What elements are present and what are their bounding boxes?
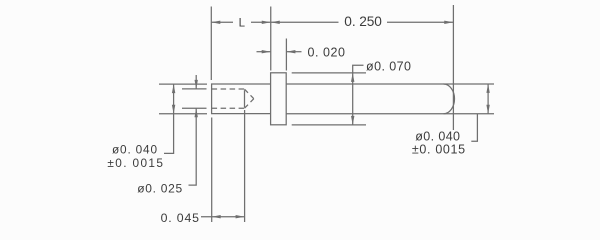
svg-text:ø0. 025: ø0. 025: [137, 181, 182, 195]
dimension 0.020 left tail and arrow: [257, 51, 271, 53]
dimension dia 0.070 vertical line with bracket: [353, 65, 364, 125]
svg-text:ø0. 040: ø0. 040: [112, 143, 157, 157]
flange dia extension line bottom: [292, 124, 366, 126]
dia 0.025 dimension line upper segment: [195, 75, 197, 89]
flange dia extension line top: [292, 72, 366, 74]
dimension 0.250 right arrow: [444, 21, 453, 24]
left dia 0.040 up arrow: [172, 84, 175, 93]
right dia 0.040 dimension line: [487, 84, 489, 114]
0.045 dimension line with text leader: [201, 216, 245, 218]
flange: [271, 73, 287, 125]
0.045 extension line right: [244, 110, 246, 222]
dia 0.025 bottom arrow (pointing up): [195, 108, 198, 117]
hole cone upper slope hidden line: [245, 89, 254, 99]
shaft top edge continuing into right extension line: [286, 83, 494, 85]
right dia 0.040 down arrow: [486, 105, 489, 114]
extension line at shaft tip: [452, 5, 454, 130]
0.045 right arrow: [236, 215, 245, 218]
shaft bottom edge continuing into right extension line: [286, 113, 494, 115]
socket hole hidden line top: [212, 88, 245, 90]
svg-text:±0. 0015: ±0. 0015: [107, 156, 163, 170]
0.045 left arrow: [212, 215, 221, 218]
hole cone base hidden line: [244, 90, 246, 107]
svg-text:±0. 0015: ±0. 0015: [412, 142, 465, 156]
hole extension line bottom: [182, 107, 207, 109]
dimension L line: [211, 21, 270, 23]
extension line left of L dimension: [210, 7, 212, 81]
dia 0.070 up arrow: [351, 73, 354, 82]
dimension 0.020 right tail and arrow: [286, 51, 301, 53]
extension line at flange right: [285, 39, 287, 71]
socket hole hidden line bottom: [212, 107, 245, 109]
dimension L right arrow: [262, 21, 271, 24]
svg-text:0. 020: 0. 020: [308, 45, 346, 59]
dimension L left arrow: [211, 21, 220, 24]
left dia 0.040 down arrow: [172, 105, 175, 114]
dimension 0.250 left arrow: [271, 21, 280, 24]
left dia 0.040 dimension line with leader to label: [164, 84, 174, 153]
svg-text:0. 045: 0. 045: [161, 211, 200, 225]
left OD extension line top: [159, 83, 207, 85]
svg-text:0. 250: 0. 250: [344, 14, 382, 29]
hole cone lower slope hidden line: [245, 99, 254, 109]
0.045 extension line left: [211, 118, 213, 223]
dia 0.070 down arrow: [351, 116, 354, 125]
right dia 0.040 up arrow: [486, 84, 489, 93]
dimension 0.250 line: [271, 21, 454, 23]
left OD extension line bottom: [159, 113, 207, 115]
hole extension line top: [182, 88, 207, 90]
shaft rounded tip: [444, 84, 455, 114]
right label leader: [471, 114, 477, 141]
dia 0.025 dimension line lower segment with leader: [189, 108, 197, 185]
svg-text:ø0. 070: ø0. 070: [366, 59, 411, 73]
extension line at flange left: [270, 7, 272, 71]
dia 0.025 top arrow (pointing down): [195, 80, 198, 89]
svg-text:L: L: [239, 18, 246, 30]
socket body outline: [212, 84, 271, 114]
